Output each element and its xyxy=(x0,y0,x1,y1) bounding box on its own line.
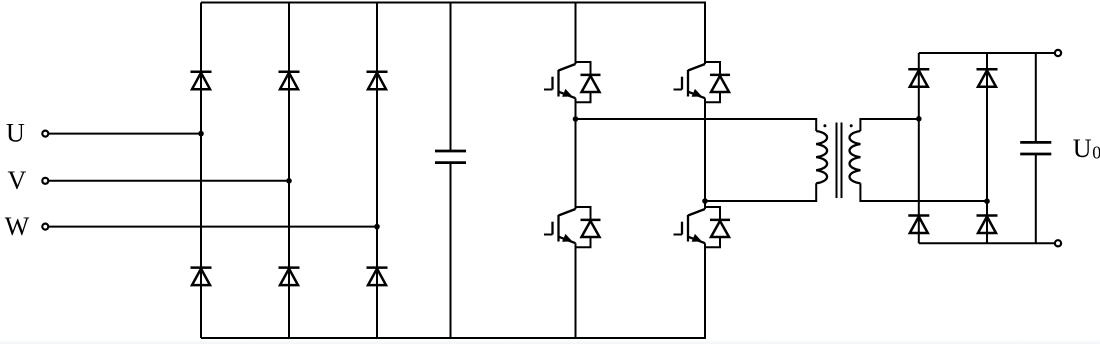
node left leg midpoint xyxy=(573,116,579,122)
capacitor C1 xyxy=(435,151,466,163)
diode D4 xyxy=(191,268,212,286)
wire output top rail xyxy=(919,52,1055,54)
wire secondary top lead xyxy=(860,119,918,131)
diode D10 xyxy=(977,216,998,234)
wire rectifier leg 3 xyxy=(376,3,378,339)
diode D1 xyxy=(191,72,212,90)
transformer T1 core xyxy=(837,123,842,199)
terminal U xyxy=(42,131,48,137)
wire DC-link capacitor branch xyxy=(450,3,452,339)
wire rectifier leg 2 xyxy=(288,3,290,339)
wire top DC rail xyxy=(201,2,706,4)
diode D6 xyxy=(367,268,388,286)
wire bottom DC rail xyxy=(201,337,706,339)
transformer T1 secondary polarity dot xyxy=(850,124,853,127)
transistor Q1 (top-left IGBT) xyxy=(544,62,601,102)
diode D2 xyxy=(279,72,300,90)
terminal output negative xyxy=(1055,240,1061,246)
node W-leg3 junction xyxy=(374,224,380,230)
diode D5 xyxy=(279,268,300,286)
capacitor C2 xyxy=(1020,142,1051,154)
wire output bottom rail xyxy=(919,242,1055,244)
transistor Q3 (bottom-left IGBT) xyxy=(544,207,601,247)
wire output rectifier left branch xyxy=(918,53,920,243)
node V-leg2 junction xyxy=(286,178,292,184)
svg-text:U: U xyxy=(1073,134,1092,163)
label U0 xyxy=(1073,134,1100,163)
wire inverter left leg xyxy=(575,3,577,339)
transformer T1 secondary winding xyxy=(850,131,861,183)
svg-text:0: 0 xyxy=(1092,143,1100,163)
wire phase V xyxy=(49,180,289,182)
transformer T1 primary winding xyxy=(816,131,827,183)
node secondary bottom junction xyxy=(984,198,990,204)
diode D3 xyxy=(367,72,388,90)
terminal output positive xyxy=(1055,50,1061,56)
svg-text:V: V xyxy=(8,166,27,195)
svg-text:U: U xyxy=(6,119,25,148)
wire phase W xyxy=(49,226,377,228)
diode D8 xyxy=(977,69,998,87)
wire output capacitor branch xyxy=(1035,53,1037,243)
terminal V xyxy=(42,178,48,184)
wire left leg midpoint to transformer primary top xyxy=(576,119,817,131)
diode D7 xyxy=(908,69,929,87)
wire secondary bottom lead xyxy=(860,183,987,201)
transistor Q2 (top-right IGBT) xyxy=(674,62,731,102)
node secondary top junction xyxy=(916,116,922,122)
wire rectifier leg 1 xyxy=(200,3,202,339)
wire phase U xyxy=(49,133,201,135)
transformer T1 primary polarity dot xyxy=(823,124,826,127)
node U-leg1 junction xyxy=(198,131,204,137)
wire output rectifier right branch xyxy=(986,53,988,243)
terminal W xyxy=(42,224,48,230)
bottom page edge band xyxy=(0,340,1100,344)
diode D9 xyxy=(908,216,929,234)
svg-text:W: W xyxy=(5,212,30,241)
wire right leg midpoint to transformer primary bottom xyxy=(705,183,816,201)
node right leg midpoint xyxy=(702,198,708,204)
transistor Q4 (bottom-right IGBT) xyxy=(674,207,731,247)
wire inverter right leg xyxy=(704,3,706,339)
